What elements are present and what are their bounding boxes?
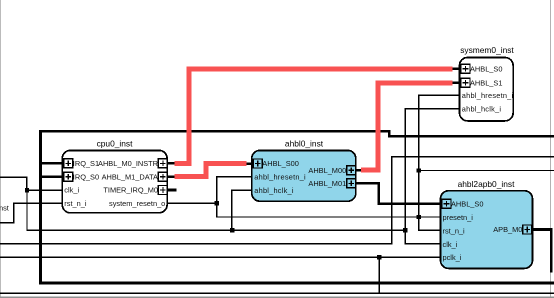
thin bottom horizontal net y293 — [0, 293, 554, 294]
wire net y243 long horizontal with riser to y156 — [0, 157, 554, 244]
pin AHBL_M00 — [308, 166, 355, 175]
svg-text:AHBL_M00: AHBL_M00 — [308, 166, 346, 175]
wire TIMER_IRQ_M0 stub — [167, 189, 176, 192]
wire IRQ_S1 from hierarchy border — [41, 162, 63, 165]
wire black tip cpu AHBL_M1_DATA — [167, 176, 174, 179]
wire ahbl0 hclk to clk net — [232, 190, 252, 230]
wire resetn main horizontal y217 — [216, 216, 441, 217]
wire step joining top borders — [388, 130, 391, 138]
pin IRQ_S1 — [64, 159, 99, 168]
pin TIMER_IRQ_M0 — [103, 186, 167, 195]
svg-text:AHBL_S0: AHBL_S0 — [470, 65, 502, 74]
wire black tip ahbl0 AHBL_S00 — [246, 162, 252, 165]
wire black tip sysmem AHBL_S0 — [453, 67, 460, 70]
svg-text:AHBL_M0_INSTR: AHBL_M0_INSTR — [98, 159, 158, 168]
block ahbl0_inst — [252, 139, 356, 202]
wire system_resetn_o from cpu — [167, 203, 218, 204]
pin AHBL_M0_INSTR — [98, 159, 167, 168]
svg-text:ahbl_hresetn_i: ahbl_hresetn_i — [462, 91, 514, 100]
svg-text:APB_M0: APB_M0 — [493, 225, 522, 234]
wire IRQ_S0 from hierarchy border — [41, 175, 63, 178]
wire rst jog from nst block — [0, 203, 63, 222]
block ahbl2apb0_inst — [441, 179, 533, 269]
wire pclk horizontal y257 — [0, 257, 441, 258]
wire sysmem ahbl_hclk down to apb clk_i — [405, 109, 459, 244]
svg-text:nst: nst — [0, 204, 9, 213]
wire black tip cpu AHBL_M0_INSTR — [167, 162, 174, 165]
pin AHBL_M01 — [308, 179, 355, 188]
svg-text:ahbl0_inst: ahbl0_inst — [285, 139, 324, 149]
node pclk junction — [377, 255, 381, 259]
svg-text:rst_n_i: rst_n_i — [443, 226, 466, 235]
svg-text:clk_i: clk_i — [64, 186, 79, 195]
wire black tip ahbl0 AHBL_M00 — [355, 169, 361, 172]
wire resetn vertical x216 — [216, 176, 217, 218]
wire black tip sysmem AHBL_S1 — [453, 82, 460, 85]
svg-text:presetn_i: presetn_i — [443, 213, 474, 222]
pin AHBL_S0 — [461, 64, 502, 73]
node clk junction at cpu input — [25, 188, 29, 192]
svg-text:AHBL_M1_DATA: AHBL_M1_DATA — [102, 172, 158, 181]
svg-text:AHBL_S1: AHBL_S1 — [470, 78, 502, 87]
canvas bottom edge — [0, 297, 554, 298]
wire red AHBL_M1_DATA to ahbl0 AHBL_S00 — [174, 164, 246, 177]
node resetn junction — [215, 201, 219, 205]
wire net y170 to right edge — [418, 170, 554, 171]
svg-text:TIMER_IRQ_M0: TIMER_IRQ_M0 — [103, 186, 158, 195]
wire APB_M0 output — [531, 230, 551, 273]
wire AHBL_M01 to ahbl2apb0 AHBL_S0 thick — [355, 183, 440, 203]
wire sysmem ahbl_hresetn to resetn vertical — [419, 95, 460, 230]
svg-text:rst_n_i: rst_n_i — [64, 199, 87, 208]
svg-text:sysmem0_inst: sysmem0_inst — [460, 45, 514, 55]
pin AHBL_S0 apb — [442, 199, 483, 208]
svg-text:ahbl_hresetn_i: ahbl_hresetn_i — [254, 173, 306, 182]
svg-text:cpu0_inst: cpu0_inst — [97, 139, 134, 149]
hierarchy border thick top horizontal — [39, 130, 391, 133]
svg-text:system_resetn_o: system_resetn_o — [109, 199, 165, 208]
svg-text:IRQ_S0: IRQ_S0 — [73, 172, 99, 181]
svg-text:clk_i: clk_i — [443, 240, 458, 249]
wire clk main horizontal y230 — [26, 230, 406, 231]
wire pclk vertical drop to bottom — [379, 257, 380, 294]
pin AHBL_M1_DATA — [102, 172, 168, 181]
pin IRQ_S0 — [64, 172, 99, 181]
pin AHBL_S1 — [461, 78, 502, 87]
node clk to ahbl0 hclk — [230, 228, 234, 232]
wire red AHBL_M0_INSTR to sysmem AHBL_S0 — [174, 69, 452, 164]
canvas right edge guide — [550, 0, 551, 298]
svg-text:AHBL_M01: AHBL_M01 — [308, 179, 346, 188]
svg-text:ahbl2apb0_inst: ahbl2apb0_inst — [458, 179, 515, 189]
svg-text:ahbl_hclk_i: ahbl_hclk_i — [254, 186, 294, 195]
pin AHBL_S00 — [253, 159, 299, 168]
thick horizontal net y136 to right edge — [388, 135, 554, 138]
svg-text:ahbl_hclk_i: ahbl_hclk_i — [462, 104, 502, 113]
svg-text:pclk_i: pclk_i — [443, 253, 462, 262]
block sysmem0_inst — [460, 45, 515, 121]
block cpu0_inst — [62, 139, 167, 213]
hierarchy border thick left vertical — [39, 130, 42, 285]
svg-text:AHBL_S0: AHBL_S0 — [451, 199, 483, 208]
wire clk input from left edge with jog — [0, 177, 63, 190]
wire red AHBL_M00 to sysmem AHBL_S1 — [361, 83, 453, 170]
node resetn at x418 — [417, 215, 421, 219]
wire clk vertical drop x27 — [26, 190, 27, 231]
pin APB_M0 — [493, 225, 532, 234]
wire ahbl0 hresetn stub — [216, 176, 252, 177]
canvas left edge — [0, 0, 1, 298]
hierarchy border thick bottom horizontal — [39, 282, 554, 285]
svg-text:IRQ_S1: IRQ_S1 — [73, 159, 99, 168]
node clk to sysmem hclk vertical — [403, 228, 407, 232]
svg-text:AHBL_S00: AHBL_S00 — [262, 159, 299, 168]
node resetn tap to y170 — [417, 168, 421, 172]
